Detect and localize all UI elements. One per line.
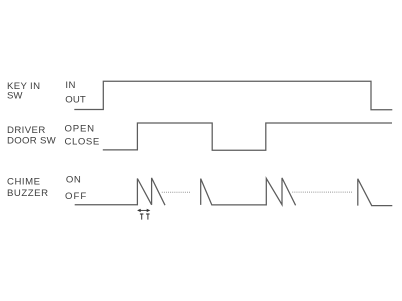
label DRIVER DOOR SW (7, 125, 57, 147)
svg-text:OPEN: OPEN (65, 123, 95, 134)
wire dotted continuation line second burst (292, 191, 353, 193)
svg-text:BUZZER: BUZZER (7, 188, 48, 199)
tick mark left below arrow (140, 214, 144, 220)
label KEY IN SW (7, 81, 40, 102)
wire CHIME BUZZER off line and first burst sawtooth pulses (75, 178, 165, 205)
svg-text:IN: IN (65, 80, 76, 91)
wire CHIME BUZZER final pulse and off line (358, 179, 393, 206)
svg-text:SW: SW (7, 91, 23, 102)
wire dotted continuation line first burst (162, 191, 191, 193)
dimension arrow chime period (137, 209, 150, 212)
svg-text:CLOSE: CLOSE (65, 136, 100, 147)
svg-text:DOOR SW: DOOR SW (7, 136, 57, 147)
svg-text:ON: ON (66, 175, 81, 186)
svg-text:CHIME: CHIME (7, 176, 40, 187)
tick mark right below arrow (146, 214, 150, 220)
svg-text:OUT: OUT (65, 94, 86, 105)
wire KEY IN SW waveform (74, 81, 392, 110)
svg-text:DRIVER: DRIVER (7, 125, 45, 136)
label CHIME BUZZER (7, 176, 48, 199)
wire CHIME BUZZER last pulse of first burst, off line, second burst sawtooth pulses (201, 178, 296, 205)
wire DRIVER DOOR SW waveform (103, 123, 392, 150)
svg-text:OFF: OFF (65, 191, 86, 202)
